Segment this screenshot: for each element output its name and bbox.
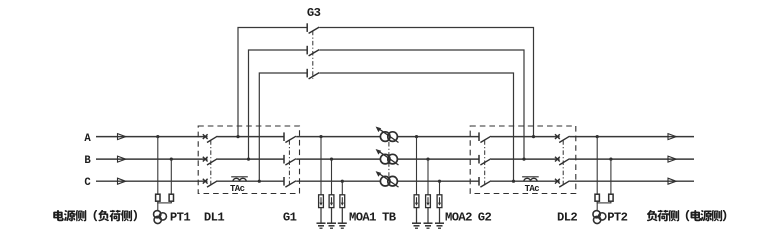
fuse RD1 phase B [169, 194, 173, 201]
svg-text:TB: TB [382, 211, 397, 225]
surge arrester MOA1 phase A [319, 137, 324, 224]
wire phase A G1 to TB [296, 136, 380, 138]
wire fuse A to PT1 [157, 201, 159, 211]
G2 gang linkage [484, 140, 486, 187]
junction bypass C right [512, 180, 515, 183]
wire phase C TB to G2 [397, 180, 479, 182]
DL1 gang linkage [210, 140, 212, 187]
circuit breaker DL1 phase B [203, 157, 218, 165]
label load side (source side) [647, 210, 726, 221]
wire phase B G1 to TB [296, 158, 380, 160]
wire fuse B down [170, 201, 172, 203]
wire phase B G2 to DL2 [491, 158, 560, 160]
svg-text:PT1: PT1 [170, 211, 190, 225]
wire phase A DL1 to G1 [217, 136, 284, 138]
wire phase B load side [570, 158, 694, 160]
svg-text:G2: G2 [478, 211, 492, 225]
junction bypass B left [247, 158, 250, 161]
wire phase C G1 to TB [296, 180, 380, 182]
junction MOA1 phase A [319, 135, 322, 138]
wire phase B source side [96, 158, 208, 160]
junction MOA1 phase B [330, 158, 333, 161]
wire bypass A left [238, 28, 307, 137]
G3 gang linkage [312, 31, 314, 79]
junction bypass B right [522, 158, 525, 161]
current transformer TAc right [522, 177, 539, 181]
disconnector G2 phase A [479, 132, 491, 142]
label source side (load side) [53, 210, 137, 221]
wire bypass C left [259, 73, 307, 181]
regulating transformer TB phase A [376, 127, 399, 143]
regulating transformer TB phase B [376, 149, 399, 165]
arrow source phase B [118, 156, 126, 162]
wire phase C source side [96, 180, 208, 182]
ground MOA1 phase C [338, 223, 347, 228]
disconnector G2 phase C [479, 177, 491, 187]
junction phase B to PT1 tap [170, 158, 173, 161]
surge arrester MOA1 phase C [340, 181, 345, 223]
arrow source phase A [118, 134, 126, 140]
svg-text:MOA1: MOA1 [349, 211, 376, 225]
circuit breaker DL2 phase A [555, 134, 570, 142]
wire PT1 tap B vertical [170, 159, 172, 194]
arrow load phase A [668, 134, 676, 140]
circuit breaker DL1 phase A [203, 134, 218, 142]
svg-text:DL2: DL2 [557, 211, 577, 225]
arrow load phase C [668, 178, 676, 184]
bypass disconnector G3 phase A [307, 23, 319, 33]
regulating transformer TB phase C [376, 171, 399, 187]
disconnector G1 phase A [284, 132, 296, 142]
G1 gang linkage [288, 140, 290, 187]
junction MOA2 phase A [415, 135, 418, 138]
current transformer TAc left [231, 177, 248, 181]
ground MOA2 phase B [424, 223, 433, 228]
TB gang linkage [388, 142, 390, 176]
ground MOA1 phase B [327, 223, 336, 228]
DL2 gang linkage [562, 140, 564, 187]
wire phase A TB to G2 [397, 136, 479, 138]
svg-text:MOA2: MOA2 [445, 211, 472, 225]
surge arrester MOA2 phase B [426, 159, 431, 223]
junction MOA2 phase B [426, 158, 429, 161]
circuit breaker DL1 phase C [203, 179, 218, 187]
bypass disconnector G3 phase C [307, 69, 319, 79]
wire phase C DL1 to G1 [217, 180, 284, 182]
fuse RD2 phase B [609, 194, 613, 201]
surge arrester MOA2 phase C [437, 181, 442, 223]
junction bypass A left [236, 135, 239, 138]
junction phase A to PT1 tap [156, 135, 159, 138]
wire phase A source side [96, 136, 208, 138]
wire phase A load side [570, 136, 694, 138]
junction phase B to PT2 tap [609, 158, 612, 161]
arrow source phase C [118, 178, 126, 184]
fuse RD2 phase A [595, 194, 599, 201]
surge arrester MOA1 phase B [329, 159, 334, 223]
wire PT2 connector horizontal [597, 202, 612, 204]
fuse RD1 phase A [156, 194, 160, 201]
surge arrester MOA2 phase A [414, 137, 419, 224]
bypass disconnector G3 phase B [307, 46, 319, 56]
dashed enclosure G2/DL2 [470, 126, 576, 194]
junction MOA2 phase C [438, 180, 441, 183]
circuit breaker DL2 phase C [555, 179, 570, 187]
wire fuse A to PT2 [596, 201, 598, 211]
wire bypass A right [319, 28, 533, 137]
voltage transformer PT1 [154, 211, 167, 224]
wire bypass B left [249, 50, 307, 159]
wire bypass B right [319, 50, 524, 159]
dashed enclosure DL1/G1 [198, 126, 299, 194]
svg-text:TAc: TAc [525, 184, 540, 194]
wire phase C load side [570, 180, 694, 182]
svg-text:PT2: PT2 [607, 211, 627, 225]
wire PT2 tap A vertical [596, 137, 598, 195]
disconnector G1 phase C [284, 177, 296, 187]
junction phase A to PT2 tap [596, 135, 599, 138]
circuit breaker DL2 phase B [555, 157, 570, 165]
wire fuse B down right [610, 201, 612, 203]
wire PT1 tap A vertical [157, 137, 159, 195]
svg-text:G3: G3 [307, 6, 321, 20]
ground MOA2 phase C [435, 223, 444, 228]
junction bypass C left [258, 180, 261, 183]
disconnector G1 phase B [284, 155, 296, 165]
wire PT1 connector horizontal [157, 202, 172, 204]
ground MOA2 phase A [412, 223, 421, 228]
wire bypass C right [319, 73, 513, 181]
ground MOA1 phase A [317, 223, 326, 228]
junction bypass A right [532, 135, 535, 138]
voltage transformer PT2 [593, 211, 606, 224]
wire PT2 tap B vertical [610, 159, 612, 194]
junction MOA1 phase C [341, 180, 344, 183]
disconnector G2 phase B [479, 155, 491, 165]
svg-text:G1: G1 [283, 211, 297, 225]
wire phase A G2 to DL2 [491, 136, 560, 138]
wire phase B TB to G2 [397, 158, 479, 160]
wire phase B DL1 to G1 [217, 158, 284, 160]
wire phase C G2 to DL2 [491, 180, 560, 182]
svg-text:DL1: DL1 [204, 211, 224, 225]
svg-text:TAc: TAc [230, 184, 245, 194]
arrow load phase B [668, 156, 676, 162]
